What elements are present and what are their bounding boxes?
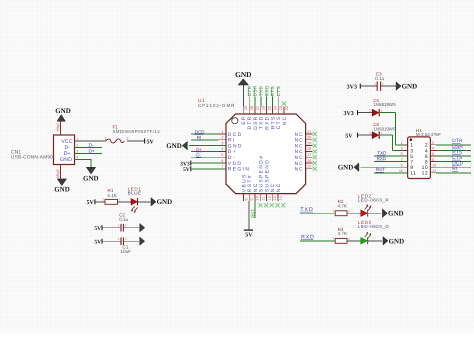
svg-text:DTR: DTR [247, 85, 252, 96]
R3 reference label [338, 227, 344, 232]
H1 pin 4 [425, 147, 436, 155]
svg-text:11: 11 [262, 197, 266, 201]
wire and net label DTR at H1 right [436, 138, 471, 145]
fuse F1 [106, 139, 124, 143]
LED3 LED-0603_G diode [361, 232, 372, 244]
U1 bottom pin 11 SUSPEND# [259, 155, 266, 201]
svg-text:2: 2 [125, 223, 127, 227]
svg-text:10: 10 [432, 163, 436, 167]
svg-text:RXD: RXD [265, 116, 271, 130]
svg-text:3V3: 3V3 [347, 84, 357, 90]
wire fuse to 5V flag [127, 140, 144, 142]
power flag 5V for D2 [345, 133, 357, 140]
wire LED3 to ground [368, 240, 382, 242]
svg-text:1N5819WS: 1N5819WS [373, 126, 396, 131]
svg-text:GND: GND [388, 210, 404, 218]
svg-text:10uF: 10uF [121, 249, 132, 254]
svg-text:19: 19 [307, 141, 311, 145]
svg-text:1: 1 [332, 236, 334, 240]
D2 terminal numbers [369, 131, 382, 135]
svg-text:2: 2 [382, 82, 384, 86]
svg-text:RXD: RXD [264, 85, 269, 96]
net label D+ [88, 149, 95, 155]
svg-text:NC: NC [282, 116, 288, 126]
net label RXD at H1 [376, 156, 387, 161]
svg-text:CP2102-GMR: CP2102-GMR [198, 103, 235, 108]
wire 3V3 to D1 [358, 112, 372, 114]
H1 pin 1 [401, 141, 414, 149]
U1 top pin 23 CTS [276, 106, 283, 129]
svg-text:EP: EP [241, 116, 247, 125]
no-connect X on pin 16 [313, 161, 317, 165]
no-connect X on pin 20 [313, 138, 317, 142]
R2 reference label [338, 199, 344, 204]
net label RI [196, 135, 202, 140]
net label TXD for LED2 row [300, 207, 314, 213]
wire U1 DCD net [191, 133, 219, 135]
svg-text:Mtg1: Mtg1 [55, 123, 60, 132]
U1 top pin 28 DTR [247, 106, 254, 129]
ground symbol after C1 [140, 237, 145, 245]
svg-text:14: 14 [279, 196, 283, 200]
ground symbol at U1 pin 3 [166, 141, 187, 150]
H1 pin-1 dot [410, 138, 413, 141]
svg-text:TXD: TXD [259, 116, 265, 130]
F1 pin number 1 [104, 136, 106, 141]
svg-text:0.1u: 0.1u [119, 217, 128, 222]
wire ground to H1 pin 9 [361, 166, 408, 168]
C2 reference label [119, 213, 125, 218]
diode D2 1N5819WS [372, 132, 379, 139]
ground symbol after LED3 [383, 237, 404, 246]
wire 5V to D2 [358, 134, 372, 136]
U1 right pin 15 NC [295, 165, 313, 173]
svg-text:5V: 5V [147, 140, 155, 146]
power flag 5V for LED1 row [86, 199, 94, 206]
C1 reference label [123, 245, 129, 250]
LED2 value LED-0603_R [358, 198, 389, 203]
capacitor C2 [121, 224, 123, 232]
wire CN1 GND pin [75, 159, 92, 167]
R3 value 4.7K [338, 231, 348, 236]
svg-text:VBUS: VBUS [241, 173, 247, 192]
svg-text:1: 1 [221, 130, 223, 134]
svg-text:RTS: RTS [270, 86, 275, 96]
svg-text:4.7K: 4.7K [338, 231, 348, 236]
svg-text:5.1K: 5.1K [108, 193, 118, 198]
power flag 5V for C1 [94, 239, 102, 246]
svg-text:SUSPEND: SUSPEND [264, 159, 270, 192]
svg-text:RST#: RST# [247, 174, 253, 192]
svg-text:15: 15 [307, 165, 311, 169]
R1 value 5.1K [108, 193, 118, 198]
wire CN1 D- net [75, 147, 103, 149]
svg-text:DSR: DSR [253, 116, 259, 130]
H1 pin 7 [401, 158, 414, 166]
U1 top pin 29 EP [241, 106, 248, 125]
ground symbol for CN1 GND pin [83, 167, 99, 182]
LED3 value LED-0603_G [358, 224, 390, 229]
svg-text:RST: RST [250, 209, 255, 218]
svg-text:DSR: DSR [253, 85, 258, 96]
svg-text:2: 2 [125, 237, 127, 241]
CN1 pin numbers [76, 137, 78, 160]
wire LED2 to ground [368, 212, 381, 214]
diode D1 1N5819WS [372, 109, 379, 116]
svg-text:TXD: TXD [259, 85, 264, 96]
svg-text:3: 3 [221, 141, 223, 145]
svg-text:D-: D- [196, 153, 201, 158]
CN1 pin name D- [65, 145, 71, 151]
U1 right pin 18 NC [295, 147, 313, 155]
svg-text:5V: 5V [86, 200, 94, 206]
svg-text:20: 20 [307, 136, 311, 140]
LED3 reference label [358, 220, 372, 225]
net label D- [88, 143, 94, 149]
svg-text:29: 29 [244, 106, 248, 110]
svg-text:6: 6 [432, 152, 434, 156]
svg-text:NC: NC [276, 182, 282, 192]
svg-text:5V: 5V [245, 233, 253, 239]
CN1 reference label [11, 149, 21, 155]
D1 terminal numbers [369, 108, 382, 112]
net label D+ chip side [196, 147, 203, 152]
wire RXD to R3 [300, 240, 335, 242]
svg-text:28: 28 [250, 106, 254, 110]
wire LED1 to ground [138, 201, 151, 203]
wire C1 to ground [124, 240, 140, 242]
svg-text:22: 22 [285, 106, 289, 110]
svg-text:3: 3 [401, 147, 403, 151]
F1 pin number 2 [126, 136, 128, 141]
svg-text:8: 8 [432, 158, 434, 162]
U1 right pin 20 NC [295, 136, 313, 144]
svg-text:NC: NC [295, 167, 304, 173]
H1 pin 10 [422, 163, 437, 171]
no-connect X on pin 17 [313, 155, 317, 159]
svg-text:2: 2 [348, 236, 350, 240]
wire R3 to LED3 [347, 240, 361, 242]
svg-text:RTS: RTS [270, 116, 276, 130]
no-connect X on U1 pin 22 [282, 101, 286, 105]
wire and net label RI at H1 right [436, 166, 471, 173]
H1 pin 9 [401, 163, 414, 171]
no-connect X on pin 19 [313, 144, 317, 148]
svg-text:DCD: DCD [195, 129, 205, 134]
svg-text:17: 17 [307, 153, 311, 157]
svg-text:13: 13 [273, 196, 277, 200]
svg-text:1: 1 [118, 223, 120, 227]
connector CN1 USB-CONN-AM90 body [54, 135, 75, 165]
F1 value SMD0805P050TF/12 [113, 129, 161, 134]
svg-text:2: 2 [432, 141, 434, 145]
no-connect X bottom 3 [270, 203, 274, 207]
svg-text:1: 1 [374, 82, 376, 86]
svg-text:SUSPEND#: SUSPEND# [259, 155, 265, 193]
resistor R3 [335, 238, 347, 243]
power flag 3V3 at U1 VDD [180, 161, 191, 168]
power flag 3V3 for D1 [343, 110, 357, 117]
U1 left pin 6 VDD [219, 159, 243, 167]
ground symbol after LED1 [151, 198, 172, 207]
svg-text:0.1u: 0.1u [375, 76, 384, 81]
svg-text:GND: GND [157, 198, 173, 206]
svg-text:3V3: 3V3 [343, 111, 353, 117]
wire and net label RXD on U1 top [264, 85, 269, 107]
D2 value 1N5819WS [373, 126, 396, 131]
R2 terminal numbers [332, 209, 350, 213]
U1 right pin 17 NC [295, 153, 313, 161]
svg-text:GND: GND [54, 186, 70, 194]
svg-text:VDD: VDD [228, 161, 243, 167]
C3 value 0.1u [375, 76, 384, 81]
svg-text:6: 6 [221, 159, 223, 163]
H1 pin 8 [425, 158, 436, 166]
F1 reference label [113, 124, 119, 129]
svg-text:NC: NC [295, 155, 304, 161]
D1 value 1N5819WS [373, 102, 396, 107]
U1 top pin 24 RTS [270, 106, 277, 129]
power flag 3V3 for C3 [347, 84, 361, 91]
svg-text:5V: 5V [183, 167, 190, 173]
svg-text:DTR: DTR [247, 116, 253, 130]
wire 5V to C1 [103, 240, 121, 242]
wire D1 cathode to header pin 1 [380, 113, 408, 145]
resistor R2 [335, 211, 347, 216]
H1 pin 12 [422, 169, 437, 177]
net label D- chip side [196, 153, 202, 158]
ground symbol at H1 pin 9 [338, 163, 359, 172]
svg-text:D-: D- [228, 155, 236, 161]
svg-text:TXD: TXD [377, 150, 387, 155]
svg-text:BLUE: BLUE [128, 190, 142, 195]
svg-text:2: 2 [118, 197, 120, 201]
ground symbol below CN1 [54, 179, 70, 194]
wire U1 D- net [191, 156, 219, 158]
svg-text:26: 26 [262, 106, 266, 110]
svg-text:23: 23 [279, 106, 283, 110]
CN1 pin name GND [60, 157, 72, 163]
svg-text:1N5819WS: 1N5819WS [373, 102, 396, 107]
CN1 value label USB-CONN-AM90 [11, 155, 53, 160]
svg-text:M-2.54-2*6P: M-2.54-2*6P [416, 132, 441, 137]
svg-text:2: 2 [348, 209, 350, 213]
U1 left pin 4 D+ [219, 147, 238, 155]
svg-text:NC: NC [295, 132, 304, 138]
U1 left pin 2 RI [219, 136, 236, 144]
svg-text:GND: GND [166, 142, 182, 150]
wire CN1 VCC to fuse [75, 140, 107, 142]
U1 bottom pin 10 NC [253, 182, 260, 201]
ground symbol after C3 [396, 82, 417, 91]
svg-text:1: 1 [381, 108, 383, 112]
net label DCD [195, 129, 206, 134]
CN1 pin name D+ [64, 151, 71, 157]
D2 reference label [373, 122, 379, 127]
svg-text:NC: NC [295, 149, 304, 155]
no-connect X on pin 21 [313, 132, 317, 136]
C2 value 0.1u [119, 217, 128, 222]
wire U1 VBUS to 5V [248, 201, 250, 230]
wire TXD to H1 pin 5 [374, 155, 408, 157]
svg-text:GND: GND [402, 83, 418, 91]
svg-text:1: 1 [118, 237, 120, 241]
R1 terminal numbers [102, 197, 120, 201]
svg-text:GND: GND [228, 143, 243, 149]
CN1 pin name VCC [61, 139, 73, 145]
LED1 BLUE diode symbol [131, 198, 138, 213]
wire 5V to U1 REGIN [191, 168, 226, 170]
svg-text:GND: GND [55, 107, 71, 115]
C3 terminal numbers [374, 82, 384, 86]
H1 pin 6 [425, 152, 436, 160]
svg-text:2: 2 [126, 136, 128, 141]
svg-text:RI: RI [197, 135, 202, 140]
svg-text:CTS: CTS [276, 86, 281, 97]
svg-text:9: 9 [250, 198, 254, 200]
no-connect X bottom 5 [281, 203, 285, 207]
U1 left pin 5 D- [219, 153, 236, 161]
svg-text:1: 1 [332, 209, 334, 213]
U1 bottom pin 14 NC [276, 182, 283, 201]
wire and net label CTS on U1 top [276, 86, 281, 107]
wire and net label DCD at H1 right [436, 161, 471, 168]
wire CN1 D+ net [75, 152, 103, 154]
wire 5V to R1 [95, 201, 105, 203]
wire RST to H1 pin 11 [374, 172, 408, 174]
wire R2 to LED2 [347, 212, 361, 214]
svg-text:4: 4 [432, 147, 434, 151]
ground symbol after LED2 [382, 209, 403, 218]
wire and net label DTR on U1 top [247, 85, 252, 106]
H1 reference label [416, 128, 422, 133]
LED1 value BLUE [128, 190, 142, 195]
wire U1 GND pin 3 [189, 145, 226, 147]
ground symbol above CN1 [55, 107, 71, 122]
svg-text:GND: GND [338, 164, 354, 172]
U1 bottom pin 9 RST# [247, 174, 254, 201]
svg-text:RXD: RXD [377, 156, 387, 161]
svg-text:12: 12 [267, 196, 271, 200]
LED2 LED-0603_R diode [361, 204, 372, 216]
wire RXD to H1 pin 7 [374, 161, 408, 163]
svg-text:11: 11 [410, 171, 416, 177]
svg-text:16: 16 [307, 159, 311, 163]
net label RST at H1 [376, 167, 386, 172]
svg-text:12: 12 [422, 171, 429, 177]
svg-text:5V: 5V [94, 226, 101, 232]
wire 3V3 to C3 [361, 85, 377, 87]
U1 top pin 25 RXD [265, 106, 272, 130]
H1 pin 2 [425, 141, 436, 149]
wire and net label RTS on U1 top [270, 86, 275, 107]
svg-text:NC: NC [295, 138, 304, 144]
H1 value M-2.54-2*6P [416, 132, 441, 137]
wire C2 to ground [124, 227, 140, 229]
op U1 CP2102-GMR body [226, 114, 306, 194]
svg-text:1: 1 [104, 136, 106, 141]
C1 value 10uF [121, 249, 132, 254]
connector H1 M-2.54-2*6P body [408, 137, 431, 179]
LED2 reference label [358, 193, 372, 198]
net label RXD for LED3 row [301, 234, 315, 240]
U1 value CP2102-GMR [198, 103, 235, 108]
svg-text:7: 7 [221, 165, 223, 169]
svg-text:24: 24 [273, 106, 277, 110]
capacitor C1 [121, 237, 123, 245]
C3 reference label [376, 72, 382, 77]
H1 pin 11 [399, 169, 417, 177]
U1 reference label [198, 98, 205, 104]
svg-text:5: 5 [221, 153, 223, 157]
wire C3 to ground [381, 85, 396, 87]
power symbol 5V below U1 [244, 230, 253, 239]
svg-text:5V: 5V [94, 240, 101, 246]
no-connect X on pin 15 [313, 167, 317, 171]
svg-text:DCD: DCD [228, 132, 243, 138]
wire and net label DSR on U1 top [253, 85, 258, 107]
C1 terminal numbers [118, 237, 127, 241]
R2 value 4.7K [338, 204, 348, 209]
U1 right pin 19 NC [295, 141, 313, 149]
wire 5V to C2 [103, 227, 121, 229]
wire D2 cathode to header pin 3 [380, 135, 408, 150]
wire and net label CTS at H1 right [436, 155, 471, 162]
svg-text:27: 27 [256, 106, 260, 110]
H1 pin 3 [401, 147, 414, 155]
svg-text:GND: GND [83, 175, 99, 183]
capacitor C3 [377, 81, 380, 91]
svg-text:LED-0603_R: LED-0603_R [358, 198, 389, 203]
wire U1 RI net [191, 139, 219, 141]
wire 3V3 to U1 VDD [191, 162, 226, 164]
power flag 5V for C2 [94, 225, 102, 232]
CN1 pin Mtg2 stub [55, 165, 61, 179]
ground symbol above U1 [235, 70, 251, 107]
svg-text:10: 10 [256, 196, 260, 200]
svg-text:NC: NC [270, 182, 276, 192]
svg-text:GND: GND [389, 237, 405, 245]
svg-text:25: 25 [268, 106, 272, 110]
R3 terminal numbers [332, 236, 350, 240]
LED1 reference label [128, 186, 142, 191]
svg-text:2: 2 [369, 108, 371, 112]
no-connect X bottom 4 [275, 203, 279, 207]
no-connect X on pin 18 [313, 149, 317, 153]
svg-text:1: 1 [102, 197, 104, 201]
svg-text:LED-0603_G: LED-0603_G [358, 224, 390, 229]
U1 pin-1 indicator circle [232, 118, 238, 124]
svg-text:5V: 5V [345, 134, 353, 140]
U1 right pin 16 NC [295, 159, 313, 167]
U1 bottom pin 8 VBUS [241, 173, 248, 201]
svg-text:D+: D+ [228, 149, 237, 155]
svg-text:RI: RI [228, 138, 236, 144]
svg-text:NC: NC [295, 161, 304, 167]
svg-text:D+: D+ [196, 147, 202, 152]
U1 top pin 27 DSR [253, 106, 260, 130]
svg-text:21: 21 [307, 130, 311, 134]
D1 reference label [373, 98, 379, 103]
svg-text:GND: GND [60, 157, 72, 163]
svg-text:GND: GND [235, 70, 251, 79]
svg-text:VCC: VCC [61, 139, 73, 145]
no-connect X bottom 2 [264, 203, 268, 207]
wire TXD to R2 [300, 212, 336, 214]
U1 bottom pin 13 NC [270, 182, 277, 201]
no-connect X bottom 1 [258, 203, 262, 207]
svg-text:NC: NC [295, 143, 304, 149]
